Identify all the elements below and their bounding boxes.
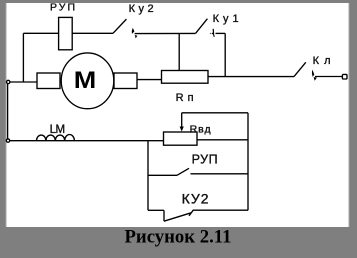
svg-text:Ку1: Ку1 — [213, 13, 239, 25]
svg-text:КУ2: КУ2 — [182, 191, 209, 207]
svg-text:Ку2: Ку2 — [129, 3, 154, 15]
svg-text:LM: LM — [50, 124, 66, 136]
svg-text:Рисунок 2.11: Рисунок 2.11 — [125, 226, 232, 247]
svg-text:М: М — [74, 68, 97, 94]
svg-text:РУП: РУП — [192, 153, 218, 167]
svg-text:РУП: РУП — [50, 2, 75, 14]
svg-text:Rвд: Rвд — [190, 123, 211, 135]
